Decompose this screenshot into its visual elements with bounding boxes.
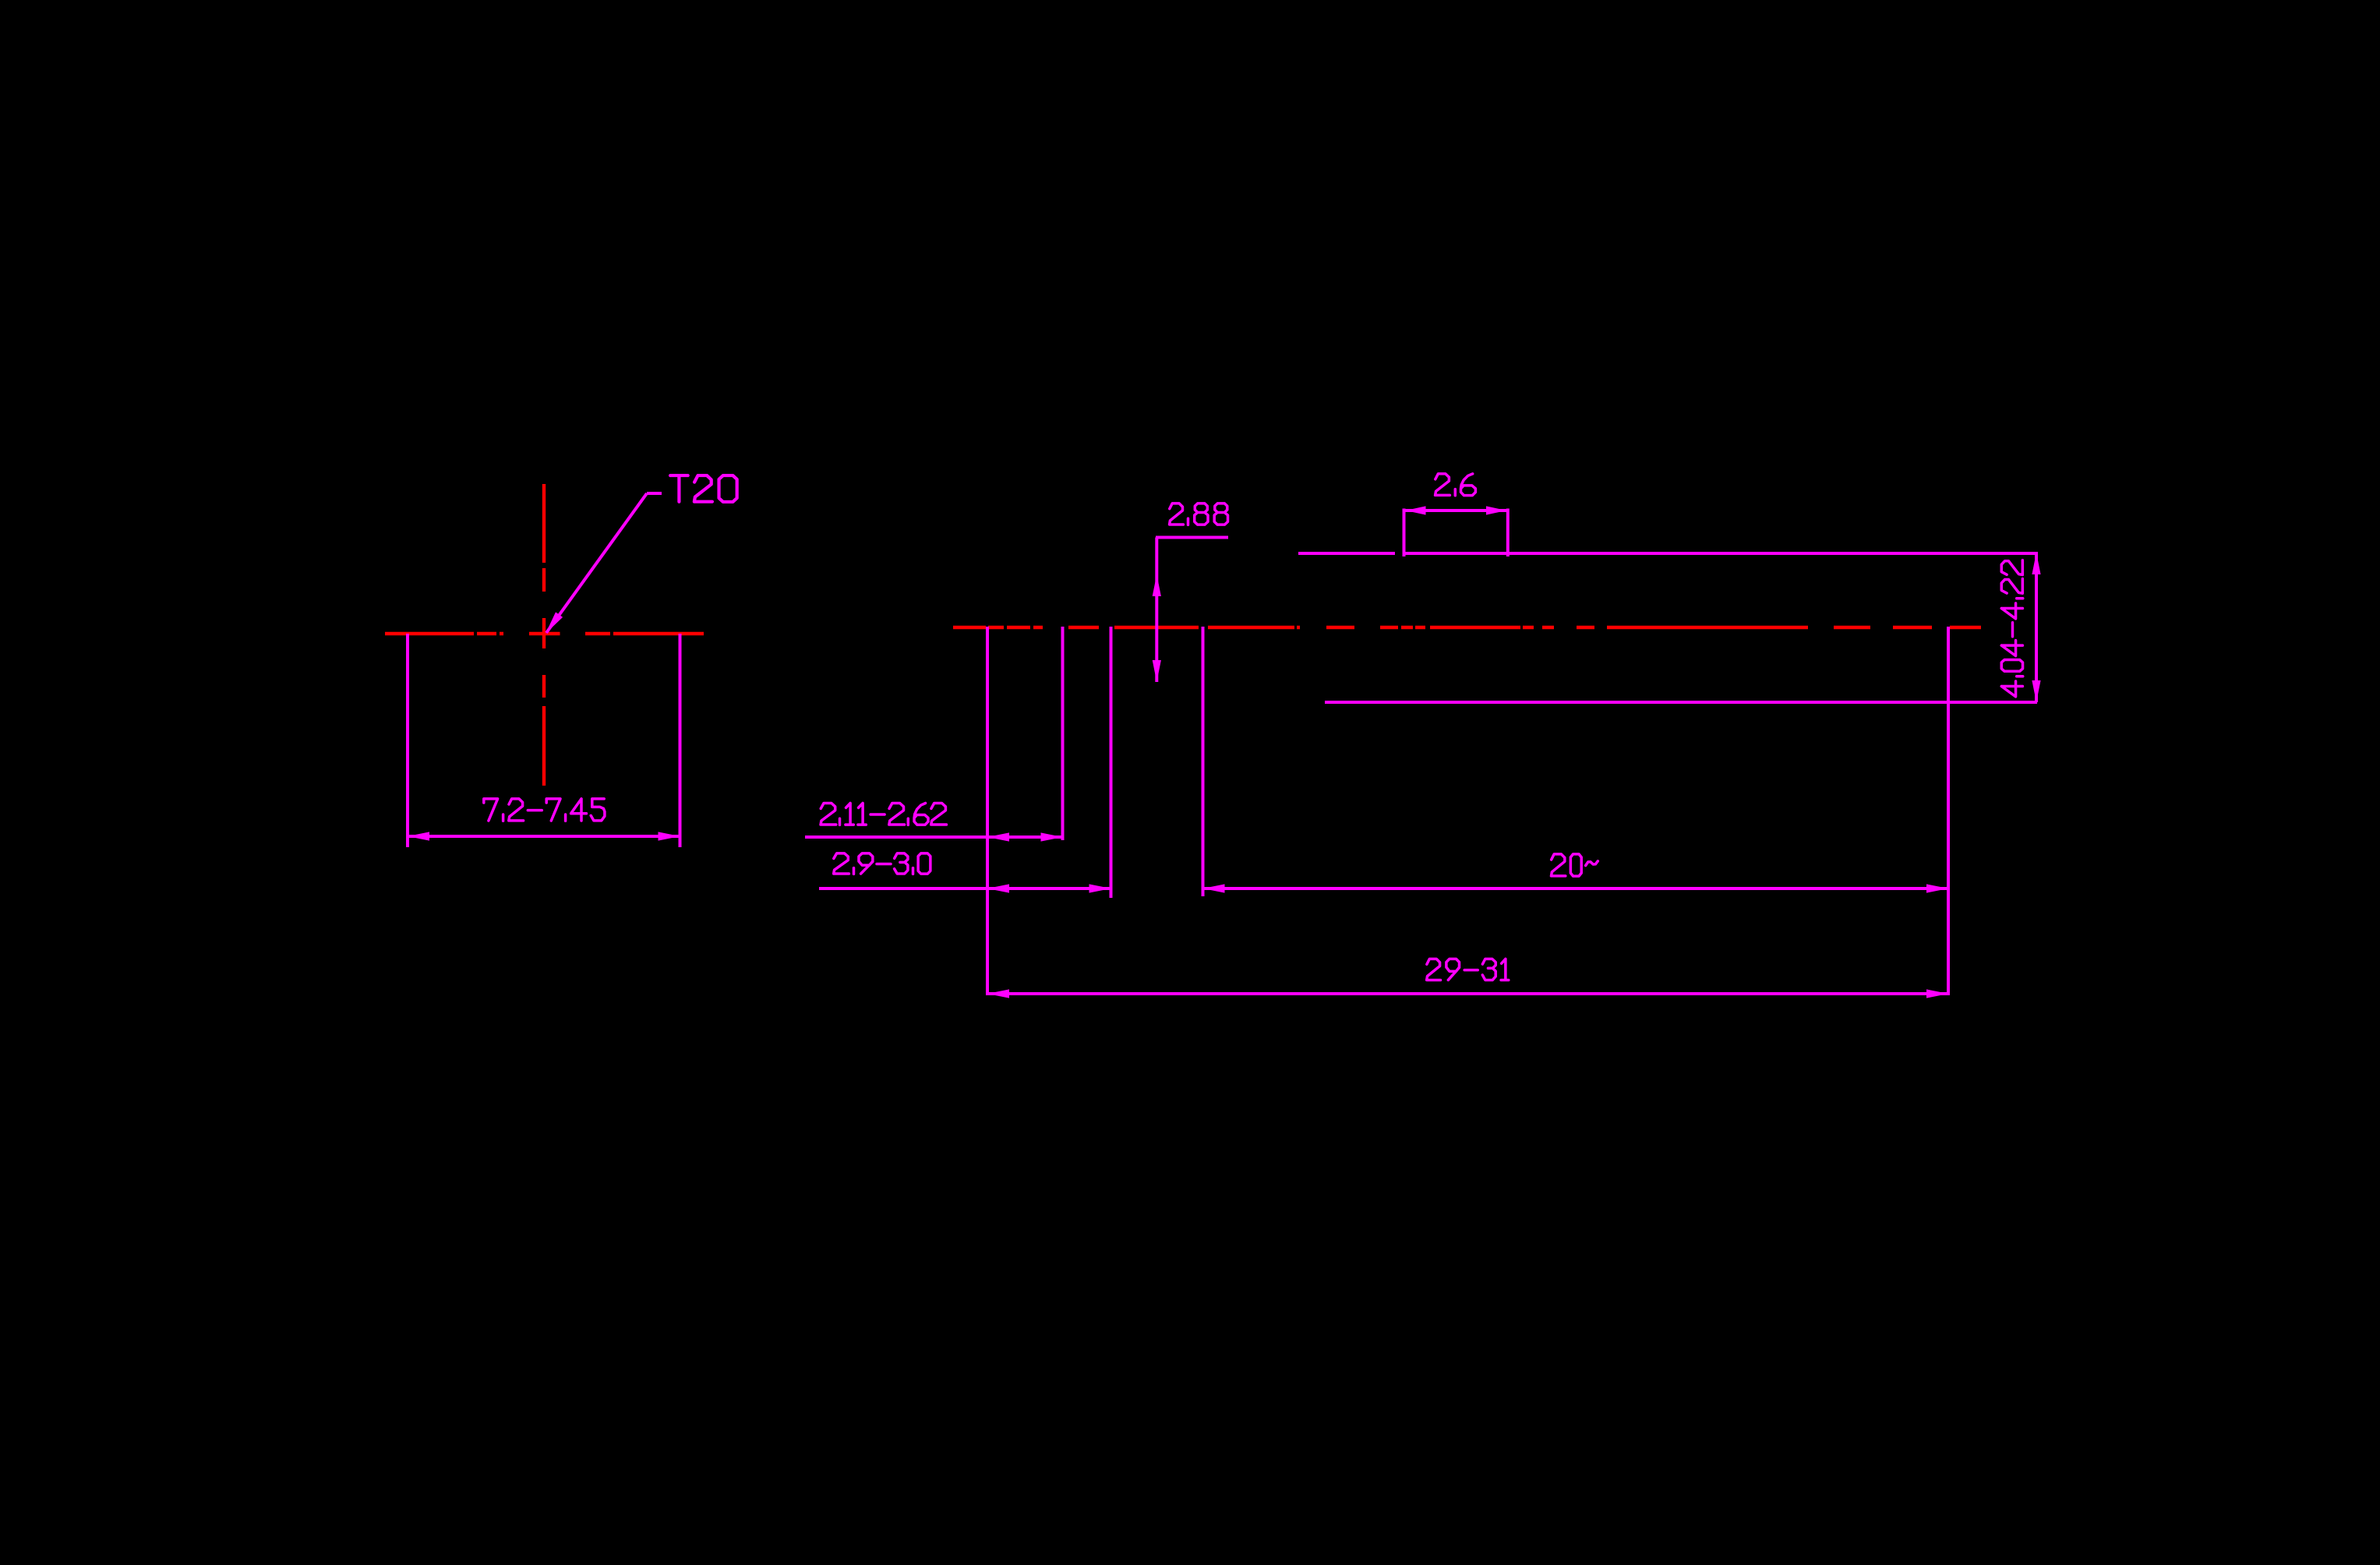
part top edge — [1298, 552, 2038, 555]
part bottom edge — [1325, 701, 2037, 704]
label T20 — [670, 475, 737, 502]
text 2.9-3.0 — [834, 853, 930, 874]
right view: red centerline (axis) — [953, 626, 1981, 629]
text 2.11-2.62 — [821, 803, 946, 825]
dim 2.88: arrowheads (bore diameter) — [1153, 574, 1161, 596]
text 20~ — [1551, 854, 1598, 876]
dim 2.88: leader elbow — [1156, 536, 1228, 539]
extension line x=1543.5 — [1202, 627, 1205, 896]
dim 20~: dimension line with arrows — [1203, 887, 1949, 890]
left view: horizontal red centerline — [385, 632, 704, 635]
dim 2.9-3.0: dimension line with arrows — [819, 887, 1111, 890]
leader line to T20 — [546, 493, 647, 633]
text 4.04-4.22 (rotated) — [2001, 560, 2022, 697]
dim 4.04-4.22: vertical dimension line with arrows — [2035, 553, 2038, 702]
dim 7.2-7.45: dimension line with arrows — [408, 835, 680, 838]
key bump left side / 2.6 extension — [1403, 509, 1406, 557]
left view: vertical red centerline — [542, 484, 546, 786]
text 7.2-7.45 — [484, 799, 605, 821]
extension line x=2500 — [1947, 627, 1950, 995]
text 29-31 — [1427, 959, 1509, 980]
text 2.88 — [1170, 503, 1228, 525]
dim 7.2-7.45: extension lines — [406, 634, 409, 847]
extension line x=1363.5 — [1061, 627, 1065, 840]
dim 2.11-2.62: dimension line with arrows — [805, 835, 1063, 839]
dim 29-31: dimension line with arrows — [987, 992, 1948, 995]
leader arrowhead — [546, 612, 563, 634]
extension line x=1425.5 — [1110, 627, 1113, 898]
dim 2.6: dimension line with arrows — [1406, 509, 1507, 512]
key bump right side / 2.6 extension — [1506, 509, 1510, 557]
text 2.6 — [1435, 474, 1476, 496]
extension line x=1267 — [986, 627, 989, 995]
